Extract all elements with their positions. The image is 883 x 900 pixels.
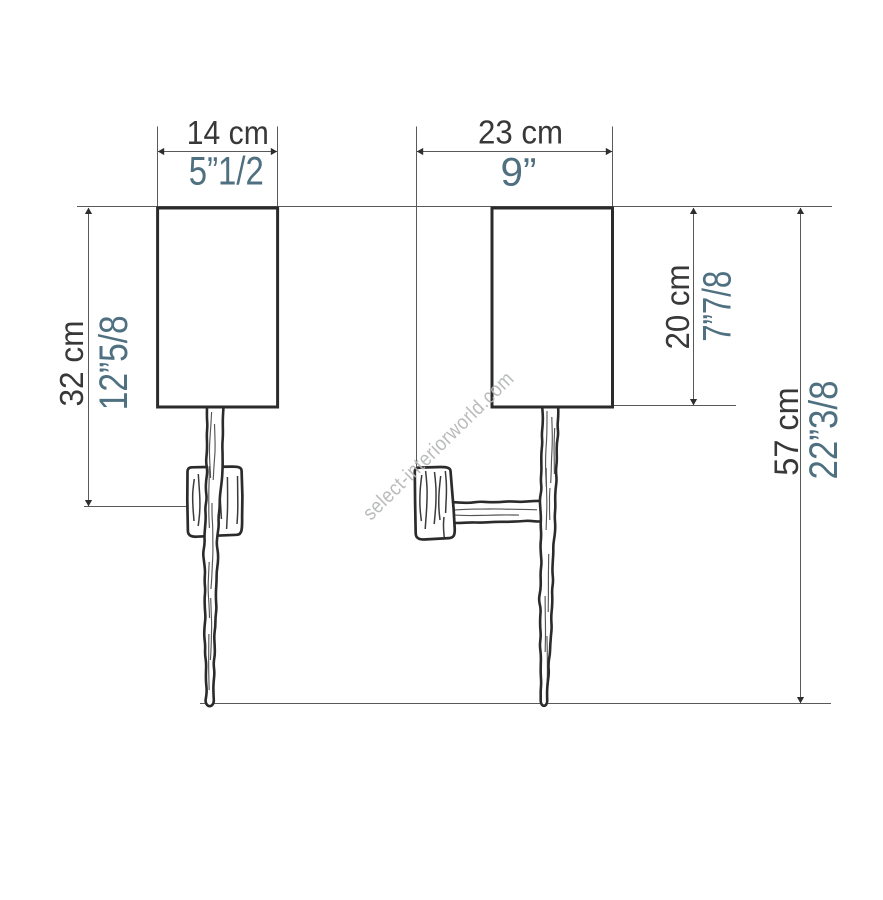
svg-text:23 cm: 23 cm	[478, 114, 563, 151]
svg-text:14 cm: 14 cm	[187, 114, 269, 151]
svg-text:57 cm: 57 cm	[768, 387, 806, 476]
svg-text:5”1/2: 5”1/2	[189, 150, 264, 194]
svg-text:20 cm: 20 cm	[659, 265, 696, 350]
svg-text:9”: 9”	[501, 151, 537, 195]
svg-text:22”3/8: 22”3/8	[802, 381, 846, 480]
svg-text:12”5/8: 12”5/8	[92, 315, 136, 410]
svg-text:7”7/8: 7”7/8	[695, 271, 739, 342]
svg-text:32 cm: 32 cm	[53, 321, 90, 407]
